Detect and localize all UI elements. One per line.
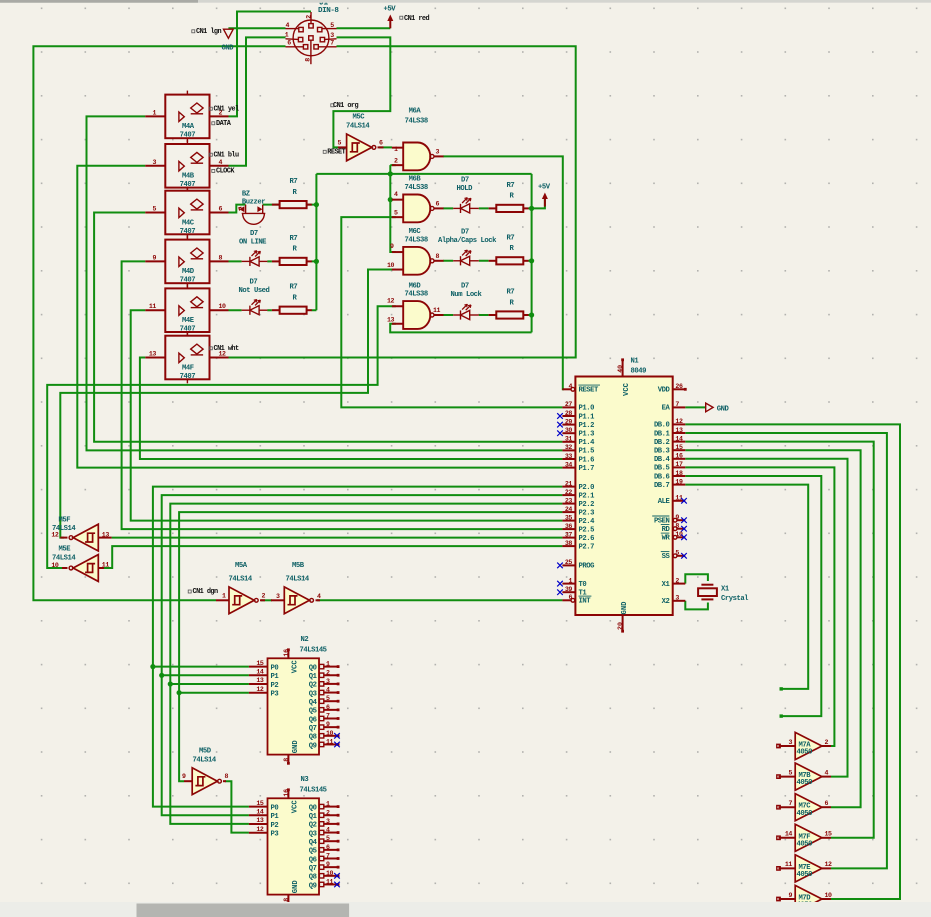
MCU N1 left pin 36 P2.5 bbox=[562, 528, 575, 530]
svg-text:6: 6 bbox=[287, 39, 291, 46]
MCU N1 left pin 37 P2.6 bbox=[562, 537, 575, 539]
svg-text:HOLD: HOLD bbox=[457, 185, 474, 193]
MCU N1 left pin 22 P2.1 bbox=[562, 494, 575, 496]
svg-text:M5F: M5F bbox=[59, 517, 71, 525]
svg-text:D7: D7 bbox=[461, 177, 469, 185]
inverter M5D 74LS14 bbox=[192, 768, 217, 795]
svg-text:13: 13 bbox=[102, 531, 110, 538]
MCU N1 left pin 34 P1.7 bbox=[562, 467, 575, 469]
buffer M4E 7407 bbox=[165, 288, 209, 332]
svg-text:N1: N1 bbox=[631, 358, 640, 366]
svg-text:4: 4 bbox=[568, 383, 572, 390]
svg-text:37: 37 bbox=[565, 531, 573, 538]
MCU N1 8049 body bbox=[575, 377, 672, 616]
svg-text:X1: X1 bbox=[662, 581, 671, 589]
decoder N2 output Q8 pin 10 bbox=[319, 734, 323, 738]
svg-text:21: 21 bbox=[565, 480, 573, 487]
svg-text:27: 27 bbox=[565, 401, 573, 408]
svg-text:3: 3 bbox=[788, 739, 792, 746]
wire P1.6 net: M4F in column bbox=[140, 358, 563, 460]
resistor R7 R bbox=[272, 204, 280, 206]
svg-text:Q3: Q3 bbox=[309, 830, 317, 838]
svg-text:Not Used: Not Used bbox=[239, 287, 270, 295]
NAND gate M6B 74LS38 bbox=[403, 195, 430, 223]
svg-text:Q4: Q4 bbox=[309, 839, 318, 847]
decoder N2 GND pin 8 bbox=[287, 755, 289, 764]
svg-text:3: 3 bbox=[326, 818, 330, 825]
svg-text:14: 14 bbox=[256, 809, 264, 816]
wire M4C out to buzzer and resistor bbox=[229, 205, 317, 213]
LED D7 Not Used bbox=[242, 309, 250, 311]
buffer M4E pin stubs bbox=[145, 309, 165, 311]
wire M5A-M5B link bbox=[261, 599, 272, 601]
svg-text:7: 7 bbox=[326, 853, 330, 860]
buffer M4D 7407 bbox=[165, 240, 209, 284]
MCU N1 left pin 33 P1.6 bbox=[562, 458, 575, 460]
wire crystal X2 loop bbox=[685, 601, 708, 610]
label DATA bbox=[212, 122, 215, 125]
svg-text:T0: T0 bbox=[579, 581, 587, 589]
wire M5E out to M6D input 12 bbox=[47, 306, 396, 568]
junction at 152.9,666.6 bbox=[150, 664, 155, 669]
svg-text:WR: WR bbox=[662, 535, 671, 543]
wire CLOCK net: M4B out to DIN pin1 bbox=[229, 37, 286, 165]
inverter M5B 74LS14 bbox=[284, 587, 309, 614]
svg-text:M4D: M4D bbox=[182, 268, 195, 276]
resistor R7 R bbox=[489, 207, 497, 209]
svg-text:7407: 7407 bbox=[180, 132, 196, 140]
inverter M5F 74LS14 bbox=[73, 524, 98, 551]
svg-text:4: 4 bbox=[326, 827, 330, 834]
decoder N3 output Q0 pin 1 bbox=[319, 804, 323, 808]
svg-text:BZ: BZ bbox=[242, 190, 250, 198]
svg-text:14: 14 bbox=[256, 669, 264, 676]
svg-text:D7: D7 bbox=[461, 283, 469, 291]
label CN1 blu bbox=[209, 153, 212, 156]
svg-text:4: 4 bbox=[286, 22, 290, 29]
svg-text:31: 31 bbox=[565, 436, 573, 443]
label CN1 red bbox=[400, 16, 403, 19]
connector J1 DIN-8 bbox=[293, 20, 329, 56]
svg-text:DB.5: DB.5 bbox=[654, 465, 670, 473]
svg-text:5: 5 bbox=[152, 206, 156, 213]
wire P2.3 net: 8049 to N2 P3 and M5D input bbox=[179, 512, 562, 781]
buffer M4A pin stubs bbox=[145, 115, 165, 117]
svg-text:P2.1: P2.1 bbox=[579, 492, 596, 500]
decoder N3 input P3 pin 12 bbox=[249, 832, 268, 834]
MCU N1 left pin 4 RESET bbox=[562, 388, 570, 390]
decoder N2 input P1 pin 14 bbox=[249, 674, 268, 676]
svg-text:M5E: M5E bbox=[59, 546, 72, 554]
junction at 316.4,261.4 bbox=[314, 259, 319, 264]
decoder N2 output Q0 pin 1 bbox=[319, 664, 323, 668]
MCU N1 left pin 24 P2.3 bbox=[562, 511, 575, 513]
svg-text:9: 9 bbox=[326, 861, 330, 868]
svg-text:R7: R7 bbox=[290, 178, 298, 186]
label CN1 yel bbox=[209, 107, 212, 110]
wire right resistor rail column bbox=[531, 174, 533, 333]
svg-text:P3: P3 bbox=[271, 831, 279, 839]
svg-text:9: 9 bbox=[152, 254, 156, 261]
wire DB.4 to M7B out bbox=[685, 459, 847, 777]
svg-text:12: 12 bbox=[256, 686, 264, 693]
svg-text:SS: SS bbox=[662, 553, 671, 561]
resistor R7 R bbox=[272, 260, 280, 262]
svg-text:26: 26 bbox=[675, 383, 683, 390]
svg-text:Q0: Q0 bbox=[309, 664, 317, 672]
svg-text:1: 1 bbox=[222, 592, 226, 599]
svg-text:Q2: Q2 bbox=[309, 682, 317, 690]
svg-text:15: 15 bbox=[675, 444, 683, 451]
svg-text:GND: GND bbox=[292, 740, 300, 754]
svg-text:5: 5 bbox=[788, 769, 792, 776]
wire DB.7 stub end bbox=[685, 485, 808, 689]
svg-text:R7: R7 bbox=[507, 234, 515, 242]
svg-text:Num Lock: Num Lock bbox=[451, 291, 483, 299]
svg-text:DATA: DATA bbox=[216, 120, 232, 128]
MCU N1 right pin 18 DB.6 bbox=[673, 475, 686, 477]
buffer M7C 4050 bbox=[795, 794, 822, 821]
svg-text:8: 8 bbox=[436, 253, 440, 260]
svg-text:1: 1 bbox=[326, 661, 330, 668]
svg-text:Q1: Q1 bbox=[309, 673, 318, 681]
wire P2.2 net: 8049 to N2 and N3 P2 bbox=[170, 504, 562, 824]
svg-text:+5V: +5V bbox=[538, 184, 551, 192]
svg-text:DB.0: DB.0 bbox=[654, 422, 670, 430]
svg-text:8: 8 bbox=[304, 58, 311, 62]
NAND gate M6C 74LS38 bbox=[403, 247, 430, 275]
svg-text:RESET: RESET bbox=[327, 149, 345, 157]
svg-text:36: 36 bbox=[565, 523, 573, 530]
wire left resistor rail column bbox=[315, 174, 317, 310]
svg-text:EA: EA bbox=[662, 405, 671, 413]
MCU N1 right pin 3 X2 bbox=[673, 600, 686, 602]
svg-text:5: 5 bbox=[330, 22, 334, 29]
svg-text:CN1 yel: CN1 yel bbox=[214, 106, 240, 114]
buffer M4C 7407 bbox=[165, 191, 209, 235]
svg-text:8049: 8049 bbox=[631, 368, 647, 376]
svg-text:2: 2 bbox=[825, 739, 829, 746]
junction at 170.3,684.0 bbox=[168, 681, 173, 686]
svg-text:CN1 lgn: CN1 lgn bbox=[196, 28, 222, 36]
svg-text:16: 16 bbox=[283, 789, 290, 797]
NAND gate M6B pin stubs bbox=[392, 199, 403, 201]
MCU N1 GND pin 20 bbox=[622, 615, 624, 631]
svg-text:33: 33 bbox=[565, 453, 573, 460]
svg-text:5: 5 bbox=[338, 140, 342, 147]
decoder N2 output Q1 pin 2 bbox=[319, 673, 323, 677]
svg-text:14: 14 bbox=[675, 435, 683, 442]
svg-text:6: 6 bbox=[379, 140, 383, 147]
decoder N3 output Q9 pin 11 bbox=[319, 882, 323, 886]
buffer M4C pin stubs bbox=[145, 212, 165, 214]
svg-text:13: 13 bbox=[256, 817, 264, 824]
svg-text:M5A: M5A bbox=[235, 562, 248, 570]
svg-text:74LS145: 74LS145 bbox=[300, 787, 327, 795]
buffer M7A pin stubs bbox=[779, 745, 796, 747]
wire CN1 wht net: DIN pin7 to M4F out bbox=[229, 46, 576, 357]
svg-text:P1.7: P1.7 bbox=[579, 465, 595, 473]
svg-text:ALE: ALE bbox=[658, 498, 671, 506]
svg-text:13: 13 bbox=[256, 677, 264, 684]
svg-text:7407: 7407 bbox=[180, 373, 196, 381]
svg-text:Q6: Q6 bbox=[309, 716, 317, 724]
wire M6C out row bbox=[443, 260, 532, 262]
wire DB.0 to M7D out bbox=[685, 424, 900, 899]
buffer M7F pin stubs bbox=[779, 837, 796, 839]
buffer M7B pin stubs bbox=[779, 776, 796, 778]
MCU N1 right pin 15 DB.3 bbox=[673, 449, 686, 451]
svg-text:N2: N2 bbox=[301, 636, 309, 644]
svg-text:12: 12 bbox=[256, 826, 264, 833]
svg-text:Q9: Q9 bbox=[309, 742, 317, 750]
svg-text:3: 3 bbox=[436, 149, 440, 156]
svg-text:7: 7 bbox=[788, 800, 792, 807]
buffer M7A 4050 bbox=[795, 732, 822, 759]
svg-text:14: 14 bbox=[785, 831, 793, 838]
wire +5V feed at right rail bbox=[532, 199, 545, 208]
svg-text:D7: D7 bbox=[250, 230, 258, 238]
power GND at CN1 lgn bbox=[224, 29, 234, 38]
svg-text:M4A: M4A bbox=[182, 123, 195, 131]
wire P2.0 net: 8049 to N2 and N3 P0 bbox=[153, 487, 563, 807]
wire M6A out to 8049 RESET bbox=[443, 156, 564, 389]
decoder N2 output Q2 pin 3 bbox=[319, 682, 323, 686]
svg-text:DB.6: DB.6 bbox=[654, 473, 670, 481]
LED D7 ON LINE bbox=[242, 260, 250, 262]
svg-text:Q0: Q0 bbox=[309, 804, 317, 812]
buffer M4B 7407 bbox=[165, 144, 209, 188]
svg-text:Q2: Q2 bbox=[309, 822, 317, 830]
svg-text:7: 7 bbox=[675, 401, 679, 408]
svg-text:P1.4: P1.4 bbox=[579, 439, 596, 447]
wire bottom loop to M6D input 13 bbox=[390, 324, 531, 333]
svg-text:Q9: Q9 bbox=[309, 882, 317, 890]
svg-text:74LS14: 74LS14 bbox=[286, 576, 310, 584]
wire M4E out row through LED Not Used bbox=[229, 309, 317, 311]
NAND gate M6C pin stubs bbox=[392, 251, 403, 253]
svg-text:1: 1 bbox=[285, 31, 289, 38]
wire EA to GND bbox=[685, 406, 705, 408]
LED D7 right column bbox=[453, 314, 460, 316]
buffer M7D 4050 bbox=[795, 885, 822, 912]
svg-text:13: 13 bbox=[149, 351, 157, 358]
decoder N3 output Q7 pin 9 bbox=[319, 865, 323, 869]
LED D7 right column bbox=[453, 207, 460, 209]
svg-text:P3: P3 bbox=[271, 691, 279, 699]
wire M5F out to M6C input 10 bbox=[60, 270, 396, 538]
svg-text:CN1 dgn: CN1 dgn bbox=[193, 588, 219, 596]
MCU N1 left pin 23 P2.2 bbox=[562, 503, 575, 505]
svg-text:CN1 blu: CN1 blu bbox=[214, 152, 240, 160]
svg-text:10: 10 bbox=[219, 303, 227, 310]
junction at 531.6,260.8 bbox=[529, 258, 534, 263]
decoder N2 output Q4 pin 5 bbox=[319, 699, 323, 703]
svg-text:P1: P1 bbox=[271, 673, 280, 681]
svg-text:Q7: Q7 bbox=[309, 865, 317, 873]
wire P2.5 net: M4D in column bbox=[122, 261, 563, 529]
wire P1.7 net: M4B in column bbox=[77, 166, 562, 468]
svg-text:GND: GND bbox=[621, 601, 629, 615]
wire P2.6 net: M5F in to 8049 bbox=[112, 537, 563, 539]
NAND gate M6A pin stubs bbox=[392, 147, 403, 149]
svg-text:Q3: Q3 bbox=[309, 690, 317, 698]
inverter M5C 74LS14 bbox=[347, 134, 372, 161]
svg-text:7: 7 bbox=[330, 40, 334, 47]
svg-text:12: 12 bbox=[51, 532, 59, 539]
decoder N2 output Q3 pin 4 bbox=[319, 690, 323, 694]
wire P1.0 net: 8049 to M6B input 5 bbox=[341, 217, 562, 407]
svg-text:5: 5 bbox=[326, 695, 330, 702]
wire P2.4 net: M4E in column bbox=[131, 310, 563, 520]
svg-text:11: 11 bbox=[149, 303, 157, 310]
svg-text:2: 2 bbox=[305, 15, 312, 19]
MCU N1 VCC pin 40 bbox=[622, 360, 624, 377]
svg-text:11: 11 bbox=[433, 307, 441, 314]
svg-text:R7: R7 bbox=[290, 235, 298, 243]
svg-text:R7: R7 bbox=[507, 182, 515, 190]
buffer M7C pin stubs bbox=[779, 806, 796, 808]
MCU N1 left pin 25 PROG bbox=[562, 564, 575, 566]
svg-text:6: 6 bbox=[568, 594, 572, 601]
svg-text:16: 16 bbox=[675, 453, 683, 460]
svg-text:3: 3 bbox=[152, 159, 156, 166]
buffer M7E 4050 bbox=[795, 855, 822, 882]
svg-text:M6C: M6C bbox=[409, 228, 422, 236]
decoder N2 74LS145 body bbox=[268, 658, 320, 754]
decoder N2 output Q6 pin 7 bbox=[319, 716, 323, 720]
svg-text:6: 6 bbox=[326, 844, 330, 851]
svg-text:11: 11 bbox=[326, 878, 334, 885]
svg-text:24: 24 bbox=[565, 506, 573, 513]
MCU N1 left pin 30 P1.3 bbox=[562, 432, 575, 434]
svg-text:1: 1 bbox=[394, 146, 398, 153]
MCU N1 left pin 39 T1 bbox=[562, 591, 575, 593]
svg-text:8: 8 bbox=[219, 254, 223, 261]
svg-text:6: 6 bbox=[326, 704, 330, 711]
DIN-8 pin stubs bbox=[310, 12, 312, 24]
bottom scrollbar bbox=[0, 902, 931, 917]
svg-text:M5D: M5D bbox=[199, 748, 212, 756]
svg-text:6: 6 bbox=[436, 201, 440, 208]
svg-text:2: 2 bbox=[326, 809, 330, 816]
svg-text:M6D: M6D bbox=[409, 282, 422, 290]
svg-text:8: 8 bbox=[675, 523, 679, 530]
svg-text:Q6: Q6 bbox=[309, 856, 317, 864]
svg-text:2: 2 bbox=[675, 577, 679, 584]
svg-text:4050: 4050 bbox=[797, 749, 813, 757]
NAND gate M6D 74LS38 bbox=[403, 301, 430, 329]
svg-text:74LS14: 74LS14 bbox=[229, 575, 253, 583]
MCU N1 right pin 12 DB.0 bbox=[673, 423, 686, 425]
svg-text:Q8: Q8 bbox=[309, 734, 317, 742]
decoder N3 GND pin 8 bbox=[287, 895, 289, 904]
junction at 179.1,692.7 bbox=[177, 690, 182, 695]
svg-text:7407: 7407 bbox=[180, 228, 196, 236]
decoder N3 input P2 pin 13 bbox=[249, 823, 268, 825]
MCU N1 right pin 26 VDD bbox=[673, 388, 686, 390]
svg-text:P1.2: P1.2 bbox=[579, 422, 595, 430]
inverter M5A 74LS14 bbox=[229, 587, 254, 614]
svg-text:25: 25 bbox=[565, 559, 573, 566]
svg-text:DB.7: DB.7 bbox=[654, 482, 670, 490]
DIN-8 pin squares bbox=[309, 24, 313, 28]
svg-text:P2.7: P2.7 bbox=[579, 543, 595, 551]
decoder N2 input P2 pin 13 bbox=[249, 683, 268, 685]
wire M5C out to M6A in 1 bbox=[379, 146, 392, 148]
buffer M4F 7407 bbox=[165, 336, 209, 380]
svg-text:VCC: VCC bbox=[623, 382, 631, 396]
svg-text:Alpha/Caps Lock: Alpha/Caps Lock bbox=[438, 237, 497, 245]
svg-text:10: 10 bbox=[51, 562, 59, 569]
svg-text:20: 20 bbox=[617, 622, 624, 630]
decoder N3 output Q4 pin 5 bbox=[319, 839, 323, 843]
MCU N1 right pin 7 EA bbox=[673, 406, 686, 408]
decoder N2 VCC pin 16 bbox=[287, 650, 289, 659]
svg-text:X1: X1 bbox=[721, 586, 730, 594]
svg-text:P2.5: P2.5 bbox=[579, 526, 595, 534]
svg-text:6: 6 bbox=[219, 206, 223, 213]
label RESET bbox=[323, 150, 326, 153]
NAND gate M6D pin stubs bbox=[392, 305, 403, 307]
svg-text:P1.1: P1.1 bbox=[579, 413, 596, 421]
decoder N3 output Q2 pin 3 bbox=[319, 822, 323, 826]
buffer M4A 7407 bbox=[165, 95, 209, 139]
decoder N3 output Q8 pin 10 bbox=[319, 874, 323, 878]
resistor R7 R bbox=[489, 260, 497, 262]
svg-text:2: 2 bbox=[262, 592, 266, 599]
decoder N3 74LS145 body bbox=[268, 798, 320, 894]
svg-text:M6A: M6A bbox=[409, 108, 422, 116]
svg-text:16: 16 bbox=[283, 649, 290, 657]
svg-text:P1.3: P1.3 bbox=[579, 431, 595, 439]
svg-text:P2.2: P2.2 bbox=[579, 501, 595, 509]
junction at 390.3,199.65 bbox=[388, 197, 393, 202]
svg-text:10: 10 bbox=[326, 870, 334, 877]
NAND gate M6A 74LS38 bbox=[403, 143, 430, 171]
svg-text:17: 17 bbox=[675, 461, 683, 468]
MCU N1 right pin 13 DB.1 bbox=[673, 432, 686, 434]
svg-text:M5B: M5B bbox=[292, 562, 305, 570]
label CN1 wht bbox=[209, 347, 212, 350]
svg-text:+5V: +5V bbox=[384, 6, 397, 14]
decoder N2 output Q9 pin 11 bbox=[319, 742, 323, 746]
svg-text:Q8: Q8 bbox=[309, 874, 317, 882]
svg-text:R7: R7 bbox=[290, 284, 298, 292]
MCU N1 right pin 5 SS bbox=[677, 555, 685, 557]
wire DB.3 to M7C out bbox=[685, 450, 860, 807]
buffer M7F 4050 bbox=[795, 824, 822, 851]
svg-text:12: 12 bbox=[675, 418, 683, 425]
svg-text:P2.3: P2.3 bbox=[579, 509, 595, 517]
svg-text:4: 4 bbox=[219, 159, 223, 166]
junction at 316.4,204.6 bbox=[314, 202, 319, 207]
svg-text:P0: P0 bbox=[271, 804, 279, 812]
svg-text:32: 32 bbox=[565, 444, 573, 451]
MCU N1 left pin 1 T0 bbox=[562, 583, 575, 585]
svg-text:Q5: Q5 bbox=[309, 848, 317, 856]
svg-text:29: 29 bbox=[565, 418, 573, 425]
wire DATA net: M4A out to DIN pin2 bbox=[229, 12, 312, 117]
junction at 531.6,208.4 bbox=[529, 206, 534, 211]
crystal X1 bbox=[701, 584, 713, 586]
wire M6B out row through LED and resistor bbox=[443, 207, 532, 209]
MCU N1 right pin 19 DB.7 bbox=[673, 484, 686, 486]
svg-text:INT: INT bbox=[579, 598, 592, 606]
svg-text:GND: GND bbox=[717, 406, 730, 414]
svg-text:3: 3 bbox=[326, 678, 330, 685]
buffer M7E pin stubs bbox=[779, 867, 796, 869]
